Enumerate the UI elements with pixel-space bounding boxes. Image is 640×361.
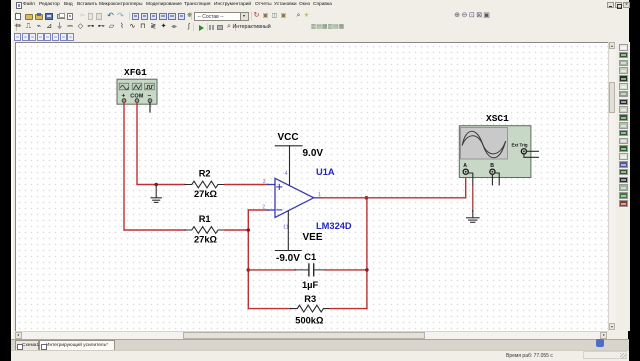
wire inverting input: [248, 209, 268, 211]
VEE power: [275, 211, 301, 251]
wire XFG1 - stub: [149, 103, 151, 113]
canvas: [15, 42, 609, 332]
horizontal scrollbar: [15, 331, 609, 339]
node R1/inverting junction: [247, 228, 251, 232]
oscilloscope XSC1: [459, 126, 531, 178]
vertical scrollbar: [608, 42, 616, 332]
wire XFG1 + to R1 left: [124, 103, 185, 231]
VCC power: [275, 146, 302, 185]
capacitor C1: [295, 264, 326, 276]
wire R2 to op-amp +: [225, 184, 268, 186]
scope B pin stubs: [491, 174, 493, 185]
tab row: [11, 339, 629, 351]
op-amp U1A: [268, 178, 321, 217]
window controls: [607, 2, 614, 8]
status bar: [11, 350, 629, 361]
ext trig stubs: [526, 150, 538, 152]
resistor R1: [185, 227, 225, 234]
function generator XFG1: [117, 79, 157, 104]
ground (input): [151, 185, 161, 202]
scope A- hook wire: [468, 173, 473, 185]
menu bar: [11, 0, 629, 11]
wire C1 right: [325, 269, 367, 271]
wire C1 left: [248, 269, 295, 271]
toolbar row1: [11, 10, 629, 23]
ground (scope): [467, 211, 480, 223]
wire op-amp output to scope A: [321, 197, 466, 199]
resistor R3: [248, 308, 290, 310]
wire feedback left vertical: [247, 210, 249, 309]
wire XFG1 COM to R2 left: [137, 103, 185, 185]
wire feedback right vertical: [366, 198, 368, 309]
right instrument toolbar: [618, 42, 630, 332]
wire scope A drop: [465, 175, 467, 198]
node C1 right junction: [365, 268, 369, 272]
resistor R2: [185, 181, 225, 188]
toolbar row2: [11, 22, 629, 34]
frame edges & grips: [11, 10, 13, 350]
wire R1 to inverting node: [225, 229, 248, 231]
node output junction: [365, 196, 369, 200]
node COM/ground junction: [154, 183, 158, 187]
toolbar row3: [11, 33, 629, 42]
node C1 left junction: [247, 268, 251, 272]
